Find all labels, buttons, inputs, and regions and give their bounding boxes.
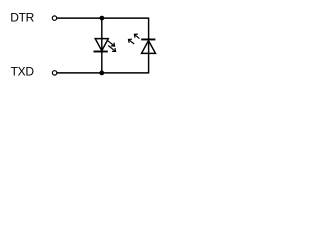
wire right branch	[148, 18, 150, 73]
junction top	[100, 16, 105, 21]
wire left branch	[101, 18, 103, 73]
terminal DTR	[52, 16, 56, 20]
wire top rail from DTR terminal	[57, 17, 149, 19]
LED D2 (cathode up)	[129, 34, 156, 53]
terminal TXD	[52, 71, 56, 75]
junction bottom	[99, 71, 104, 76]
LED D1 (cathode down)	[94, 39, 116, 52]
svg-text:TXD: TXD	[11, 64, 35, 78]
svg-text:DTR: DTR	[10, 11, 34, 25]
wire bottom rail from TXD terminal	[57, 72, 149, 74]
